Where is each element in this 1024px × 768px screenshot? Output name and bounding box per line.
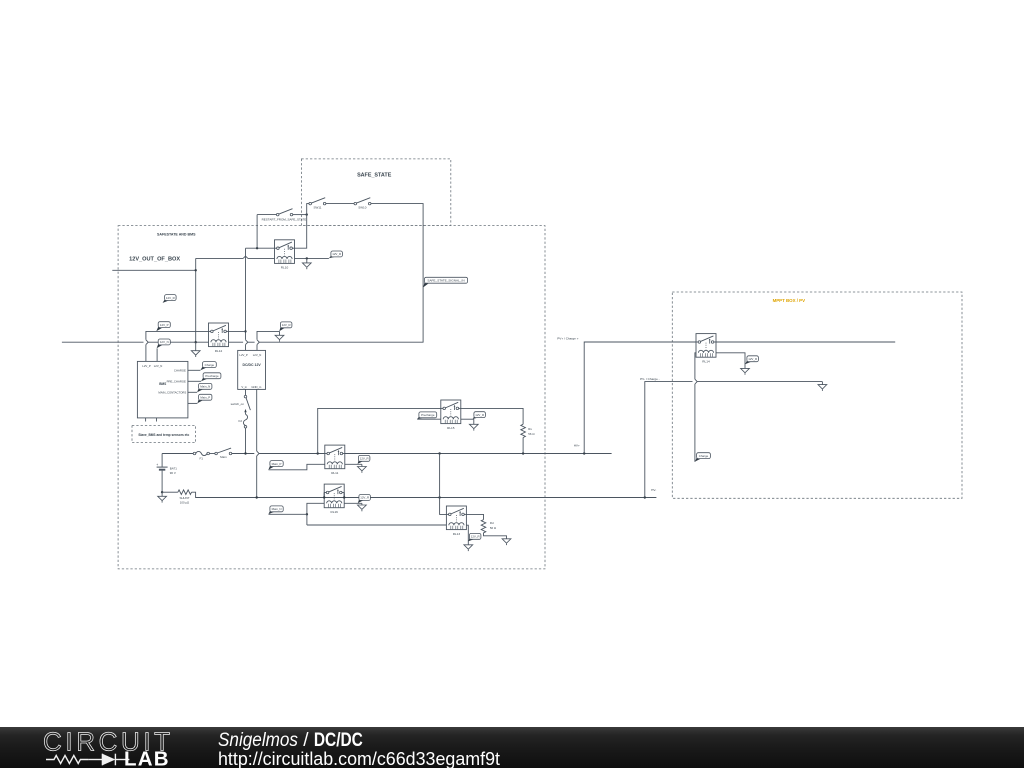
junction RL16 left <box>323 496 325 498</box>
wire RL14 coil right <box>716 353 745 369</box>
svg-text:V_in: V_in <box>241 385 247 389</box>
dashed region box SAFE_STATE <box>301 159 450 226</box>
switch SW11 <box>309 198 326 210</box>
battery BAT1 96 V <box>156 454 177 493</box>
svg-text:SAFESTATE AND BMS: SAFESTATE AND BMS <box>157 233 196 237</box>
wire 12V_OUT_OF_BOX input <box>112 269 195 271</box>
wire Rs to main bus <box>522 438 524 454</box>
resistor Rd 56 Ohm <box>481 520 497 533</box>
wire segment y=342.2 to RL12 coil <box>229 341 244 343</box>
wire battery top to fuse F1 <box>162 453 194 455</box>
wire RESTART switch left drop x=257.1 <box>256 215 258 249</box>
wire hop at (245.5,342.2) <box>246 340 248 345</box>
svg-text:PV- / Charge -: PV- / Charge - <box>640 377 660 381</box>
wire RL16 coil left to Main_N <box>307 503 324 525</box>
wire RESTART to RL10 bypass <box>257 214 278 216</box>
relay RL15 <box>441 400 461 430</box>
svg-text:Precharge: Precharge <box>205 374 219 378</box>
wire RL11 coil right <box>345 463 362 465</box>
wire 12V_N rail left y=342.2 <box>62 341 209 343</box>
wire RESTART right to SW11 riser <box>292 214 307 216</box>
wire HV- bus right <box>344 497 656 499</box>
wire RL13 coil left <box>307 524 447 526</box>
switch switch_on <box>231 395 251 414</box>
wire RL16 coil right <box>344 502 362 504</box>
ground RL10 coil <box>302 258 311 269</box>
CircuitLab logo resistor-diode symbol <box>46 754 129 766</box>
wire Main_N flag lead <box>269 513 307 515</box>
svg-text:SW11: SW11 <box>314 205 322 209</box>
junction Rs bottom <box>522 452 524 454</box>
svg-text:12V_OUT_OF_BOX: 12V_OUT_OF_BOX <box>129 256 180 262</box>
relay RL14 <box>696 334 716 364</box>
wire BMS pin MAIN_CONTACTORS stub P <box>188 402 198 404</box>
flag Charge at RL14 <box>695 453 710 462</box>
wire hop at (256.7,453.5) <box>257 451 259 456</box>
svg-text:12V_R: 12V_R <box>360 457 369 461</box>
svg-text:Snigelmos / DC/DC: Snigelmos / DC/DC <box>218 730 363 751</box>
flag 12V_P <box>156 322 170 332</box>
flag 12V_R at L2V_N branch <box>279 322 292 331</box>
junction Main_N tee <box>306 513 308 515</box>
svg-text:SHUNT: SHUNT <box>180 496 190 500</box>
svg-text:Charge: Charge <box>205 363 215 367</box>
flag Main_N at RL16 <box>269 506 284 514</box>
wire RL15 switch right to Rs <box>461 408 523 424</box>
wire hop at (145.9,342.2) <box>146 340 148 345</box>
svg-text:L2V_P: L2V_P <box>142 364 151 368</box>
wire RL10 coil right <box>295 257 329 259</box>
wire BMS pin CHARGE stub <box>188 369 201 371</box>
ground battery negative <box>158 492 167 502</box>
svg-text:HV+: HV+ <box>574 443 580 447</box>
ground RL15 coil <box>469 419 478 430</box>
wire RL13 coil right to ground <box>466 525 468 545</box>
svg-text:12V_R: 12V_R <box>282 323 291 327</box>
dashed region box Slave_BMS and temp sensors etc <box>132 426 196 443</box>
junction RL10 coil ground <box>306 257 308 259</box>
wire SW11 to SW10 <box>325 203 356 205</box>
svg-text:MPPT BOX / PV: MPPT BOX / PV <box>773 298 806 303</box>
svg-text:12V_R: 12V_R <box>471 535 480 539</box>
flag Charge at BMS <box>200 362 216 371</box>
wire hop at (257,342.2) <box>257 340 259 345</box>
fuse F1 <box>193 451 209 460</box>
flag Main_P at RL11 <box>269 461 284 470</box>
junction bypass <box>306 213 308 215</box>
wire RL10 coil feed y=258.4 <box>196 257 275 259</box>
svg-text:12V_R: 12V_R <box>332 252 341 256</box>
ground L2V_N branch <box>275 331 284 341</box>
svg-text:RL16: RL16 <box>330 510 338 514</box>
svg-text:12V_R: 12V_R <box>166 296 175 300</box>
switch RESTART_FROM_SAFE_STATE <box>262 209 307 222</box>
fuse F2 <box>238 414 247 428</box>
flag 12V_R at RL14 <box>745 356 758 365</box>
svg-text:12V_R: 12V_R <box>748 357 757 361</box>
junction battery negative <box>161 491 163 493</box>
flag 12V_R at RL11 <box>358 455 370 464</box>
wire BMS L2V_P pin lower <box>145 345 147 362</box>
wire main HV+ bus <box>232 453 612 455</box>
wire SW10 to SAFE_STATE signal loop <box>259 204 423 343</box>
wire RL15 coil right <box>461 418 474 420</box>
svg-text:switch_on: switch_on <box>231 402 245 406</box>
wire RL15 coil left stub <box>417 418 441 420</box>
wire RL15 feed riser <box>318 408 441 453</box>
svg-text:RL15: RL15 <box>447 426 455 430</box>
svg-text:BMS: BMS <box>159 382 166 386</box>
wire BMS pin MAIN_CONTACTORS stub N <box>188 391 197 393</box>
wire PV- rail <box>645 382 823 498</box>
junction PV- riser <box>644 496 646 498</box>
ground Rd <box>502 539 511 545</box>
wire SW11 riser x=306.7 <box>295 204 311 249</box>
svg-text:SAFE_STATE: SAFE_STATE <box>357 172 392 178</box>
svg-text:RESTART_FROM_SAFE_STATE: RESTART_FROM_SAFE_STATE <box>262 217 307 221</box>
svg-text:DC/DC 12V: DC/DC 12V <box>242 363 261 367</box>
wire BMS bottom stub 1 <box>145 418 147 422</box>
flag Precharge at RL15 <box>417 412 436 419</box>
wire RL13 switch right to Rd <box>466 514 483 519</box>
wire HV+ riser to PV+ <box>584 342 696 454</box>
wire RL10 switch left y=248.2 <box>246 247 275 249</box>
svg-text:GND_in: GND_in <box>251 385 261 389</box>
flag Main_P at BMS <box>197 394 212 403</box>
svg-text:RL12: RL12 <box>215 349 223 353</box>
wire BMS L2V_N pin <box>156 348 158 361</box>
wire V_in to main bus <box>245 428 247 453</box>
flag 12V_R at RL13 <box>468 533 481 541</box>
switch Main <box>215 448 232 459</box>
wire RL12 switch left to BMS L2V_P <box>146 331 209 339</box>
resistor Rs 56 Ohm <box>521 424 536 437</box>
svg-text:SAFE_STATE_SIGNAL_IN: SAFE_STATE_SIGNAL_IN <box>427 279 464 283</box>
ground 12V_N rail <box>191 342 200 357</box>
svg-text:Main_N: Main_N <box>200 385 210 389</box>
relay RL10 <box>275 240 295 270</box>
flag SAFE_STATE_SIGNAL_IN <box>423 277 467 287</box>
flag 12V_R standalone left <box>163 295 177 303</box>
junction RL13 feed <box>438 452 440 454</box>
junction 12V_N ground <box>195 341 197 343</box>
svg-text:Rs: Rs <box>528 427 532 431</box>
wire Rd to ground <box>484 533 507 539</box>
svg-text:Rd: Rd <box>490 521 494 525</box>
svg-text:56 Ω: 56 Ω <box>490 526 497 530</box>
svg-text:MAIN_CONTACTORS: MAIN_CONTACTORS <box>158 390 186 394</box>
svg-text:Precharge: Precharge <box>421 413 435 417</box>
junction RESTART drop <box>256 247 258 249</box>
resistor SHUNT 100 uOhm <box>162 490 324 505</box>
component BMS battery management box <box>137 361 188 418</box>
wire BMS pin PRE_CHARGE stub <box>188 380 201 382</box>
svg-text:96 V: 96 V <box>170 471 176 475</box>
svg-text:Main: Main <box>220 455 227 459</box>
wire HV- bus through RL16 <box>324 497 344 499</box>
svg-text:SW10: SW10 <box>358 205 367 209</box>
wire L2V_N branch to ground <box>257 331 280 339</box>
svg-text:Main_P: Main_P <box>272 462 282 466</box>
flag 12V_N <box>157 339 171 348</box>
component DC/DC 12V converter box <box>238 350 266 389</box>
svg-text:LAB: LAB <box>124 748 170 768</box>
svg-text:12V_R: 12V_R <box>360 496 369 500</box>
ground PV- <box>818 382 827 391</box>
ground RL13 coil <box>464 545 473 551</box>
svg-text:Charge: Charge <box>699 454 709 458</box>
wire DC/DC L2V_P riser x=245.5 <box>245 248 247 350</box>
wire RL14 coil left drop to Charge <box>695 353 696 462</box>
svg-text:Main_N: Main_N <box>272 507 282 511</box>
svg-text:RL10: RL10 <box>281 266 289 270</box>
svg-text:F1: F1 <box>199 457 203 461</box>
svg-text:L2V_N: L2V_N <box>154 364 163 368</box>
relay RL16 <box>324 484 344 514</box>
flag 12V_R at RL16 <box>358 495 371 504</box>
svg-text:100 µΩ: 100 µΩ <box>180 501 190 505</box>
wire segment y=342.2 between hops <box>248 341 255 343</box>
svg-text:+: + <box>156 463 158 467</box>
relay RL11 <box>325 445 345 475</box>
wire hop at (694.9,381.6) <box>695 379 697 384</box>
flag Precharge at BMS <box>201 373 221 381</box>
dashed region box MPPT BOX / PV <box>672 292 962 498</box>
svg-text:Main_P: Main_P <box>200 396 210 400</box>
flag Main_N at BMS <box>197 383 212 392</box>
junction GND_in tap <box>256 496 258 498</box>
wire PV+ right of RL14 <box>716 341 895 343</box>
relay RL12 <box>209 323 229 353</box>
junction HV+ riser <box>583 452 585 454</box>
junction RL15 feed <box>317 452 319 454</box>
junction RL16 right <box>343 496 345 498</box>
flag 12V_R at RL10 <box>329 251 343 258</box>
ground RL16 coil <box>358 503 367 511</box>
wire RL16 pin stubs to HV- bus <box>324 493 344 498</box>
svg-text:http://circuitlab.com/c66d33eg: http://circuitlab.com/c66d33egamf9t <box>218 749 500 768</box>
wire HV- bus segment inside RL16 <box>324 497 344 499</box>
svg-text:12V_R: 12V_R <box>475 413 484 417</box>
wire F1 to Main switch <box>210 453 217 455</box>
wire DC/DC L2V_N pin lower <box>256 345 258 351</box>
wire vertical riser x=195.7 <box>195 258 197 342</box>
wire hop at (245.5,258.4) <box>243 256 248 258</box>
ground RL14 coil <box>741 368 750 374</box>
junction RL12 pin to L2V_P <box>244 330 246 332</box>
switch SW10 <box>354 198 371 210</box>
svg-text:PV+ / Charge +: PV+ / Charge + <box>557 337 579 341</box>
dashed region box SAFESTATE AND BMS <box>118 226 545 569</box>
svg-text:PRE_CHARGE: PRE_CHARGE <box>167 379 186 383</box>
wire DC/DC GND_in drop <box>256 389 258 497</box>
svg-text:L2V_P: L2V_P <box>239 353 248 357</box>
svg-text:56 Ω: 56 Ω <box>528 432 535 436</box>
svg-text:RL13: RL13 <box>453 532 461 536</box>
wire RL13 feed riser <box>440 454 447 515</box>
svg-text:HV-: HV- <box>651 488 656 492</box>
junction RL13 riser <box>438 496 440 498</box>
ground RL11 coil <box>358 464 367 473</box>
svg-text:RL14: RL14 <box>702 360 710 364</box>
svg-text:Slave_BMS and temp sensors etc: Slave_BMS and temp sensors etc <box>138 433 189 437</box>
wire RL12 switch right <box>229 330 246 332</box>
junction V_in tap <box>244 452 246 454</box>
svg-text:L2V_N: L2V_N <box>253 353 262 357</box>
svg-text:RL11: RL11 <box>331 471 338 475</box>
wire BMS bottom stub 2 <box>156 418 158 422</box>
flag 12V_R at RL15 <box>473 412 486 419</box>
wire DC/DC V_in pin stub <box>245 389 247 395</box>
junction 12V input <box>195 269 197 271</box>
svg-text:12V_N: 12V_N <box>160 340 169 344</box>
footer bar <box>0 727 1024 768</box>
svg-text:F2: F2 <box>238 419 242 423</box>
relay RL13 <box>446 506 466 536</box>
svg-text:CHARGE: CHARGE <box>174 368 186 372</box>
svg-text:12V_P: 12V_P <box>160 323 169 327</box>
wire RL11 coil left to Main_P <box>269 464 325 470</box>
